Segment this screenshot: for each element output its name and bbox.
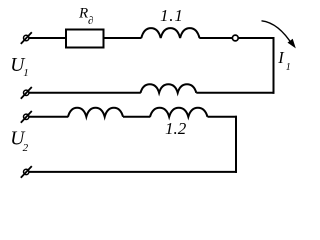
wire: row 2 inductor to right vertical	[196, 92, 274, 94]
wire: resistor to inductor 1.1	[104, 37, 142, 39]
terminal (input 1, top left)	[21, 32, 32, 44]
terminal (input 4, bottom row left)	[21, 166, 32, 178]
wire: mid-right vertical (bottom loop)	[235, 116, 237, 173]
label U1	[10, 55, 28, 79]
svg-text:∂: ∂	[88, 15, 93, 27]
svg-text:2: 2	[23, 142, 29, 154]
inductor 1.2 (first half)	[68, 108, 123, 117]
wire: bottom row	[29, 171, 237, 173]
wire: inductor 1.1 to right corner	[199, 37, 274, 39]
label U2	[10, 129, 28, 155]
wire: terminal 1 to resistor	[29, 37, 66, 39]
resistor Rd	[66, 30, 104, 48]
svg-text:R: R	[78, 6, 88, 22]
svg-text:1: 1	[286, 62, 291, 73]
svg-text:1.2: 1.2	[165, 119, 187, 138]
terminal (input 3, third row left)	[21, 111, 32, 123]
inductor (row 2, unlabeled winding)	[141, 84, 197, 93]
wire: terminal 3 to inductor 1.2a	[29, 116, 68, 118]
svg-text:1: 1	[23, 67, 29, 79]
label I1	[277, 48, 291, 73]
inductor 1.1	[141, 28, 199, 38]
wire: between 1.2 halves	[123, 116, 150, 118]
current arrow I1	[262, 21, 296, 49]
node (open junction circle)	[232, 35, 238, 41]
inductor 1.2 (second half)	[150, 108, 207, 117]
wire: inductor 1.2 to mid-right corner	[208, 116, 238, 118]
wire: right vertical (top loop)	[273, 37, 275, 94]
svg-text:1.1: 1.1	[160, 6, 184, 25]
wire: terminal 2 to inductor (row 2)	[29, 92, 141, 94]
terminal (input 2, second row left)	[21, 87, 32, 99]
label Rd	[78, 6, 93, 28]
